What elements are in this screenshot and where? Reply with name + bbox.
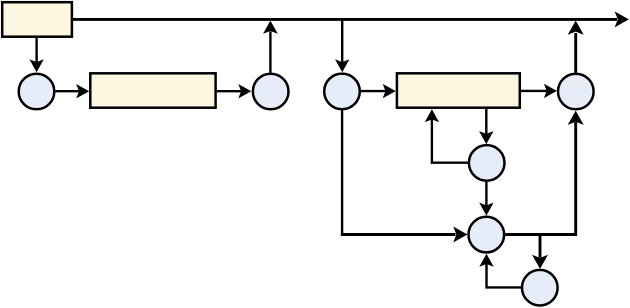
arrowhead into C4 left [544,84,557,98]
wire C4 up to main line (thick) [574,33,577,73]
wire C3 down long vertical [341,110,343,234]
node C3 [324,74,360,110]
wire main top line [72,18,617,21]
arrowhead into C6 left [453,227,467,243]
arrowhead into block B left [76,84,89,98]
node C7 [522,270,558,306]
arrowhead into C5 top [479,131,493,144]
arrowhead into block C left [383,84,396,98]
arrowhead into main line from C2 [263,21,278,34]
wire branch down to node C7 (thick) [539,235,542,258]
arrowhead into block C bottom from C5 [425,109,439,122]
arrowhead into main line from C4 [568,21,584,35]
arrowhead into C6 bottom from C7 [479,254,493,267]
arrowhead into C3 top [335,59,349,72]
arrowhead into C1 top [29,59,43,72]
wire main line down to node C3 [341,19,343,62]
wire C6 right then up to C4 (thick) [505,122,576,235]
node C5 [469,145,505,181]
wire C2 up to main line [269,32,271,73]
arrowhead main line right end [615,11,629,27]
block B (left rectangle) [90,73,215,107]
wire C1 to block B [56,90,80,92]
wire C5 down to node C6 [485,182,487,206]
arrowhead into C7 top [532,255,548,269]
node C2 [253,74,289,110]
arrowhead into C4 bottom [568,111,584,125]
node C4 [558,74,594,110]
arrowhead into C6 top [479,203,493,216]
wire B to node C2 [217,90,242,92]
arrowhead into C2 left [238,84,251,98]
wire C7 left then up to C6 [487,264,522,287]
wire A down to node C1 [35,37,37,63]
wire C3 to block C [361,90,386,92]
wire C5 feedback to block C bottom [432,119,468,163]
block C (right rectangle) [397,73,520,107]
wire C to node C4 [521,90,547,92]
wire block C down to node C5 [485,108,487,135]
block A (top-left rectangle) [2,2,72,37]
node C6 [469,217,505,253]
node C1 [19,74,55,110]
wire horizontal into C6 (thick) [341,233,456,236]
